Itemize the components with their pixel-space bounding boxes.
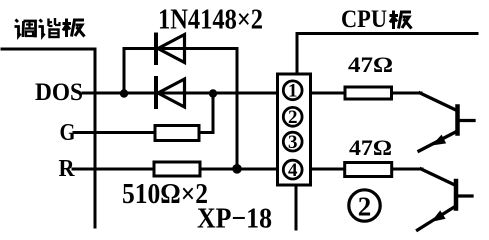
connector pin circle 1 [283, 81, 302, 102]
node junction dot DOS-G resistor branch [209, 89, 217, 97]
wire connector pin 1 to 47ohm resistor [311, 92, 346, 95]
node junction dot R line-diode branch [232, 164, 242, 174]
hanzi title 调谐板 (tuner board): char 调 [15, 20, 36, 38]
hanzi title char 板 [63, 19, 85, 38]
wire DOS net horizontal [83, 92, 278, 95]
hanzi CPU board title char 板 [390, 11, 412, 30]
svg-text:2: 2 [358, 192, 372, 222]
wire G resistor to DOS node [199, 93, 213, 133]
wire below connector XP-18 [295, 185, 298, 229]
hanzi title char 谐 [39, 18, 60, 37]
svg-text:2: 2 [288, 107, 298, 128]
svg-text:CPU: CPU [341, 6, 387, 33]
svg-text:XP−18: XP−18 [197, 202, 272, 234]
svg-text:1: 1 [288, 81, 298, 102]
transistor Q1 [419, 93, 474, 151]
resistor 510ohm R [154, 162, 200, 176]
svg-text:47Ω: 47Ω [348, 52, 393, 77]
diode D1 upper 1N4148 [156, 35, 185, 64]
resistor 510ohm G [155, 126, 199, 141]
svg-text:510Ω×2: 510Ω×2 [122, 179, 208, 210]
wire 47ohm resistor to transistor Q1 [392, 92, 422, 95]
svg-text:R: R [59, 156, 76, 182]
diode D2 lower 1N4148 [156, 78, 185, 107]
wire connector pin 4 to 47ohm resistor [311, 168, 345, 171]
svg-text:47Ω: 47Ω [349, 135, 392, 160]
svg-text:DOS: DOS [35, 79, 83, 106]
connector XP-18 body [278, 74, 311, 185]
CPU board boundary line [297, 34, 477, 75]
node junction dot DOS-left diode branch [120, 89, 128, 97]
transistor Q2 [418, 169, 473, 230]
wire R resistor to connector pin 4 [200, 168, 278, 171]
wire 47ohm resistor to transistor Q2 [392, 168, 422, 171]
wire R net [73, 168, 154, 171]
svg-text:G: G [60, 120, 76, 146]
wire G net [74, 131, 155, 134]
connector pin circle 4 [283, 160, 302, 181]
wire upper diode branch [124, 49, 237, 170]
resistor 47ohm upper [345, 87, 392, 99]
svg-text:4: 4 [288, 160, 298, 181]
svg-text:1N4148×2: 1N4148×2 [158, 4, 263, 36]
connector pin circle 3 [283, 132, 302, 153]
figure number circled 2 [349, 190, 380, 222]
svg-text:3: 3 [288, 132, 298, 153]
tuner board boundary line [2, 49, 95, 227]
resistor 47ohm lower [345, 163, 392, 177]
connector pin circle 2 [283, 107, 302, 128]
